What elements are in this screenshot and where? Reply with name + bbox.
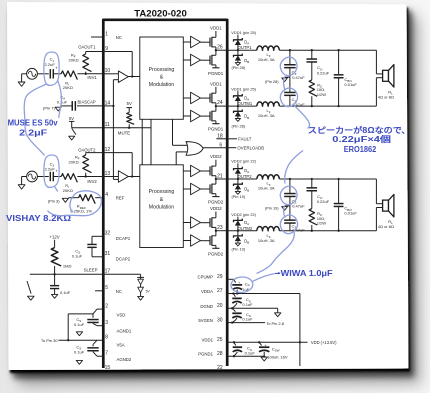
blue freehand loop around C1 (44, 52, 59, 85)
svg-text:(Pin 19): (Pin 19) (232, 246, 246, 251)
diode DB ch1P (237, 50, 239, 55)
svg-text:32: 32 (105, 231, 111, 237)
electrolytic CSW 100uF (259, 342, 261, 345)
svg-text:27: 27 (217, 288, 223, 294)
svg-text:&: & (160, 197, 164, 203)
wire pin 13 internal (103, 176, 118, 178)
capacitor C1 2.2uF (37, 73, 48, 75)
op-amp input buffer 2 (118, 171, 128, 183)
svg-text:0.01uF: 0.01uF (344, 82, 357, 87)
svg-text:DGND: DGND (200, 304, 213, 309)
svg-text:VDD2 (pin 22): VDD2 (pin 22) (231, 212, 256, 217)
svg-text:VDD1: VDD1 (210, 81, 222, 86)
svg-text:10uH, 3A: 10uH, 3A (258, 113, 275, 118)
svg-text:VDDA: VDDA (201, 289, 213, 294)
svg-text:0.1uF: 0.1uF (57, 99, 68, 104)
svg-text:4: 4 (105, 192, 108, 198)
inter-block wires (141, 119, 143, 165)
svg-text:(Pin 3): (Pin 3) (48, 198, 60, 203)
svg-text:(Pin 28): (Pin 28) (265, 79, 279, 84)
svg-text:1/2W: 1/2W (317, 92, 327, 97)
ch1 AC source V1 (27, 68, 38, 79)
charge pump cap CP 1uF (227, 278, 233, 280)
svg-text:OUTM2: OUTM2 (238, 226, 253, 231)
resistor RREF 8.25K (95, 197, 103, 199)
svg-text:10uH, 3A: 10uH, 3A (258, 57, 275, 62)
VDDA vertical rail (299, 294, 301, 367)
svg-text:0.1uF: 0.1uF (74, 322, 85, 327)
svg-text:VSD: VSD (117, 312, 126, 317)
svg-text:0.47uF: 0.47uF (292, 75, 305, 80)
svg-text:PGND1: PGND1 (198, 352, 213, 357)
wire pin 12 internal (103, 152, 132, 154)
wire pin 14 internal (103, 105, 113, 107)
svg-text:VDD (+13.5V): VDD (+13.5V) (311, 340, 337, 345)
svg-text:0.1uF: 0.1uF (72, 253, 83, 258)
output cell ch1 P (pin 26) (183, 41, 190, 43)
svg-text:NC: NC (116, 289, 122, 294)
blue freehand tail to C2 loop (58, 80, 62, 118)
svg-text:REF: REF (116, 196, 125, 201)
wire pin 20 DGND (227, 307, 278, 309)
svg-text:VISHAY 8.2KΩ: VISHAY 8.2KΩ (6, 213, 71, 223)
svg-text:1MΩ: 1MΩ (63, 264, 72, 269)
svg-text:30: 30 (217, 317, 223, 323)
svg-text:0.47uF: 0.47uF (292, 204, 305, 209)
svg-text:CPUMP: CPUMP (197, 274, 213, 279)
svg-text:2.2μF: 2.2μF (19, 127, 47, 137)
wire pin 30 5VGEN (227, 322, 265, 324)
processing block 1 (140, 37, 184, 119)
wire OUTP1 (227, 49, 257, 51)
wire biascap vertical (113, 79, 118, 81)
svg-text:VDD2 (pin 22): VDD2 (pin 22) (231, 159, 256, 164)
svg-text:1/2W: 1/2W (317, 221, 327, 226)
svg-text:DCAP2: DCAP2 (116, 257, 131, 262)
cap CS 5vgen (232, 308, 235, 311)
svg-text:Processing: Processing (149, 67, 175, 73)
svg-text:2.2uF: 2.2uF (45, 62, 56, 67)
node buffer2 out (128, 176, 140, 178)
svg-text:20KΩ: 20KΩ (69, 160, 79, 165)
svg-text:OAOUT1: OAOUT1 (78, 44, 96, 49)
svg-text:25: 25 (217, 337, 223, 343)
svg-text:V5A: V5A (117, 343, 125, 348)
svg-text:INV1: INV1 (87, 75, 97, 80)
inductor LF ch1M (257, 102, 279, 106)
svg-text:+12V: +12V (50, 235, 60, 240)
svg-text:7: 7 (105, 351, 108, 357)
svg-text:PGND2: PGND2 (208, 200, 224, 205)
inductor LF ch1P (257, 46, 279, 50)
wire pin 10 internal (103, 73, 118, 75)
svg-text:0.22μF×4個: 0.22μF×4個 (332, 134, 391, 144)
zobel caps CZ ch1 0.47uF (289, 50, 291, 65)
svg-text:Processing: Processing (149, 189, 175, 195)
blue arrow to WIWA (275, 272, 280, 274)
wire OUTM1 (227, 105, 257, 107)
pin 5 NC (95, 290, 103, 292)
capacitor C2 2.2uF (37, 176, 48, 178)
cap CS vdda-dgnd (233, 294, 235, 297)
svg-text:AGND1: AGND1 (117, 328, 132, 333)
svg-text:3: 3 (105, 320, 108, 326)
svg-text:INV2: INV2 (87, 179, 97, 184)
svg-text:10: 10 (105, 68, 111, 74)
sleep cap 0.1uF (54, 274, 56, 285)
svg-text:0.01uF: 0.01uF (344, 211, 357, 216)
wire pin 28 PGND1 (227, 355, 264, 357)
output cell ch1 M (pin 24) (183, 97, 190, 99)
sleep wire + switch (30, 273, 104, 275)
blue freehand curve speaker-to-ch2 (285, 151, 303, 184)
mute switch 5V (72, 127, 104, 129)
svg-text:28: 28 (217, 351, 223, 357)
svg-text:OAOUT2: OAOUT2 (78, 148, 96, 153)
svg-text:20: 20 (217, 303, 223, 309)
svg-text:5V: 5V (127, 101, 132, 106)
svg-text:(Pin 28): (Pin 28) (232, 65, 246, 70)
svg-text:VDD1 (pin 25): VDD1 (pin 25) (231, 86, 256, 91)
svg-text:24: 24 (217, 100, 223, 106)
blue freehand loop around CZ ch2 caps (280, 186, 297, 205)
wire pin 25 VDD1 rail (227, 341, 307, 343)
resistor 1M (51, 248, 61, 266)
svg-text:20KΩ: 20KΩ (69, 58, 79, 63)
CBO 0.01uF ch1 (338, 50, 340, 75)
resistor RF1 20K feedback (86, 51, 104, 53)
blue freehand loop around C2 (44, 155, 59, 192)
svg-text:23: 23 (217, 225, 223, 231)
svg-text:5VGEN: 5VGEN (198, 318, 213, 323)
svg-text:31: 31 (105, 251, 111, 257)
ch1 source ground (22, 73, 27, 75)
svg-text:5: 5 (105, 285, 108, 291)
blue freehand tail left of MUSE (24, 84, 46, 156)
svg-text:5V: 5V (69, 116, 74, 121)
output cell ch2 P (pin 21) (183, 170, 190, 172)
svg-text:8: 8 (105, 334, 108, 340)
svg-text:0.1uF: 0.1uF (74, 350, 85, 355)
svg-text:15: 15 (105, 365, 111, 371)
svg-text:WIWA 1.0μF: WIWA 1.0μF (281, 268, 333, 278)
svg-text:OUTP2: OUTP2 (238, 174, 253, 179)
svg-text:29: 29 (217, 274, 223, 280)
diode DB ch2M (237, 231, 239, 236)
svg-text:AGND2: AGND2 (117, 357, 132, 362)
svg-text:&: & (160, 75, 164, 81)
svg-text:VDD2: VDD2 (210, 154, 222, 159)
speaker RL ch2 (375, 179, 377, 204)
pin 1 NC (91, 36, 103, 38)
wire pin 11 MUTE (103, 127, 151, 129)
svg-text:VDD2: VDD2 (210, 206, 222, 211)
IC TA2020-020 body border (103, 20, 227, 368)
svg-text:TA2020-020: TA2020-020 (134, 9, 187, 20)
blue freehand loop around RREF (48, 191, 102, 216)
svg-text:20KΩ: 20KΩ (63, 188, 73, 193)
svg-text:PGND1: PGND1 (208, 71, 224, 76)
svg-text:2.2uF: 2.2uF (45, 167, 56, 172)
svg-text:To Pin 2,8: To Pin 2,8 (266, 321, 285, 326)
svg-text:11: 11 (105, 122, 110, 128)
wire pin 27 VDDA rail (227, 293, 300, 295)
svg-text:2: 2 (105, 304, 108, 310)
svg-text:OUTM1: OUTM1 (238, 101, 253, 106)
diode DB ch2P (237, 179, 239, 184)
inductor LF ch2M (257, 226, 279, 230)
svg-text:BIASCAP: BIASCAP (78, 99, 96, 104)
svg-text:VDD1 (pin 25): VDD1 (pin 25) (231, 30, 256, 35)
svg-text:100uF, 16V: 100uF, 16V (267, 354, 288, 359)
svg-text:Modulation: Modulation (149, 82, 174, 88)
svg-text:5V: 5V (146, 289, 151, 293)
biascap CA 0.1uF (77, 105, 103, 107)
blue freehand circle around CP + pointer (231, 277, 253, 293)
svg-text:0.1uF: 0.1uF (242, 302, 253, 307)
svg-text:VDD1: VDD1 (210, 25, 222, 30)
CO 0.22uF + RZ ch2 (311, 179, 313, 188)
resistor RF2 20K feedback (86, 152, 104, 154)
cap CS vdd1 (234, 342, 236, 345)
CS cap pins 8-7 (93, 340, 97, 344)
or-gate U-prot (186, 142, 203, 156)
svg-text:10uH, 3A: 10uH, 3A (258, 186, 275, 191)
ch2 source ground (22, 176, 27, 178)
svg-text:4Ω or 8Ω: 4Ω or 8Ω (378, 94, 394, 99)
svg-text:22: 22 (217, 365, 223, 371)
wire pin 9 internal (103, 51, 132, 53)
svg-text:Modulation: Modulation (149, 204, 174, 210)
svg-text:20KΩ: 20KΩ (63, 85, 73, 90)
pin 18 internal stub (216, 138, 227, 140)
svg-text:0.22uF: 0.22uF (317, 70, 330, 75)
svg-text:スピーカーが8Ωなので、: スピーカーが8Ωなので、 (308, 125, 411, 135)
svg-text:PGND1: PGND1 (208, 127, 224, 132)
svg-text:PGND2: PGND2 (208, 251, 224, 256)
svg-text:(Pin 19): (Pin 19) (265, 206, 279, 211)
node buffer1 out (128, 76, 140, 78)
resistor RI1 20K (61, 71, 77, 80)
zobel caps CZ ch2 0.47uF (289, 179, 291, 194)
inductor LF ch2P (257, 175, 279, 179)
svg-text:FAULT: FAULT (238, 137, 251, 142)
resistor RI2 20K (61, 174, 77, 183)
svg-text:4Ω or 8Ω: 4Ω or 8Ω (378, 224, 394, 229)
ch2 AC source V2 (27, 171, 38, 182)
svg-text:ERO1862: ERO1862 (344, 145, 377, 154)
CO 0.22uF + RZ ch1 (311, 50, 313, 59)
svg-text:SLEEP: SLEEP (84, 267, 98, 272)
svg-text:10uH, 3A: 10uH, 3A (258, 238, 275, 243)
svg-text:(Pin 19): (Pin 19) (232, 194, 246, 199)
svg-text:MUTE: MUTE (118, 130, 131, 135)
speaker RL ch1 (375, 50, 377, 74)
op-amp input buffer 1 (118, 71, 128, 83)
dcap CS 0.1uF bracket pins 32-31 (92, 235, 103, 237)
CBO 0.01uF ch2 (338, 179, 340, 204)
sleep clamp diodes (103, 273, 140, 275)
output cell ch2 M (pin 23) (183, 222, 190, 224)
svg-text:NC: NC (116, 35, 122, 40)
processing block 2 (140, 165, 184, 248)
svg-text:0.22uF: 0.22uF (317, 199, 330, 204)
or-gate feed wires (172, 119, 174, 145)
svg-text:OUTP1: OUTP1 (238, 45, 253, 50)
svg-text:1: 1 (105, 32, 108, 38)
svg-text:8.25KΩ, 1%: 8.25KΩ, 1% (70, 209, 92, 214)
svg-text:0.1uF: 0.1uF (242, 317, 253, 322)
svg-text:0.1uF: 0.1uF (60, 290, 71, 295)
diode DB ch1M (237, 106, 239, 111)
svg-text:VDD1: VDD1 (202, 338, 214, 343)
wire OUTP2 (227, 178, 257, 180)
svg-text:(Pin 28): (Pin 28) (232, 123, 246, 128)
svg-text:MUSE ES 50v: MUSE ES 50v (8, 118, 58, 128)
CS cap pins 2-3 (97, 308, 103, 310)
svg-text:OVERLOADB: OVERLOADB (237, 145, 264, 150)
svg-text:To Pin 30: To Pin 30 (41, 338, 58, 343)
svg-text:(Pin 7): (Pin 7) (43, 105, 55, 110)
wire OUTM2 (227, 230, 257, 232)
svg-text:DCAP1: DCAP1 (116, 236, 131, 241)
blue freehand loop around CZ ch1 caps (280, 57, 297, 76)
svg-text:0.1uF: 0.1uF (245, 350, 256, 355)
